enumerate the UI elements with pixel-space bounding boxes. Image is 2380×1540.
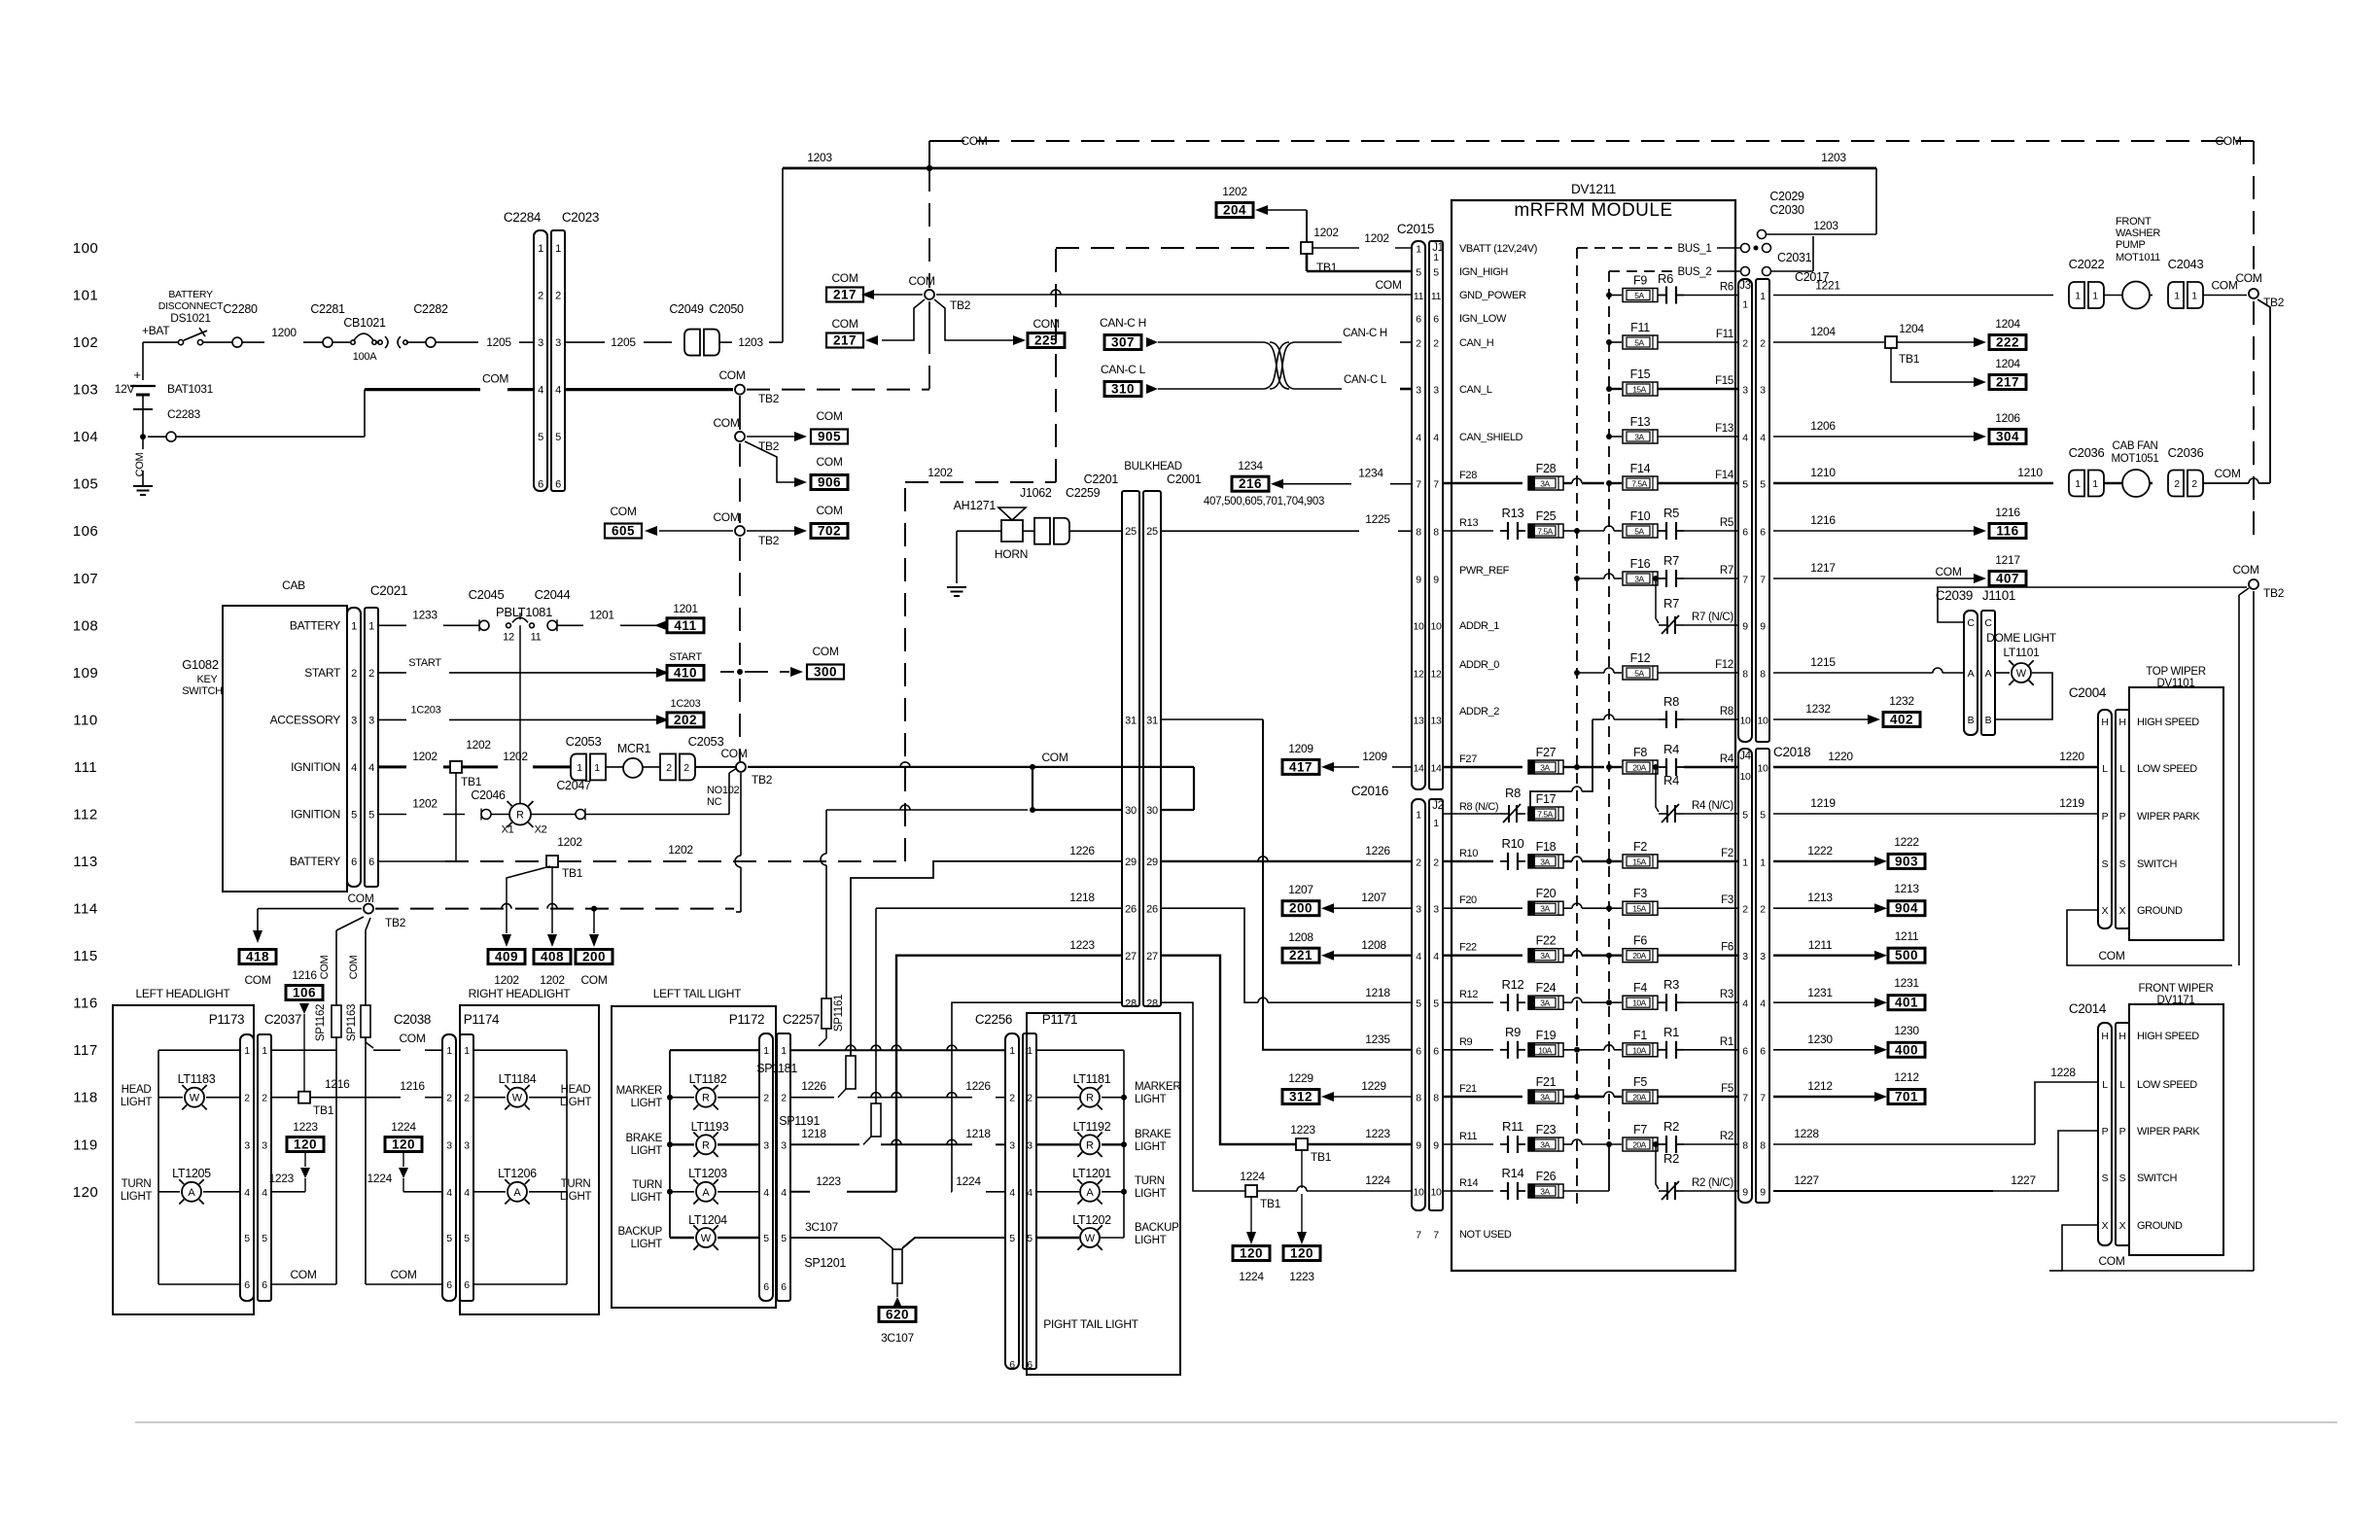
wire front wiper COM [2049,1225,2254,1271]
node J1 pin 3 [1416,385,1439,397]
node row 104 label [73,429,99,445]
svg-text:LIGHT: LIGHT [1135,1141,1167,1153]
wire COM to bulkhead30 [1030,767,1122,813]
svg-text:1211: 1211 [1808,938,1833,952]
node C2021 pin 5 [351,810,374,822]
wire TB1 to 408 [551,866,553,933]
svg-text:TB1: TB1 [1899,352,1920,366]
svg-text:START: START [408,657,441,669]
svg-text:8: 8 [1760,1140,1766,1152]
svg-text:312: 312 [1289,1090,1312,1104]
svg-text:27: 27 [1125,951,1137,962]
wire COM dashed top [929,134,2254,168]
connector J1 [1429,241,1444,789]
svg-text:6: 6 [781,1281,787,1293]
svg-text:X2: X2 [535,824,547,836]
svg-text:26: 26 [1146,904,1158,916]
wire label 1224 120 [385,1120,422,1152]
svg-text:1202: 1202 [927,466,953,479]
wire label 1213 904 [1888,882,1925,916]
svg-text:1210: 1210 [2017,466,2043,479]
svg-text:1224: 1224 [1365,1173,1390,1187]
node row 111 label [74,759,97,776]
node TB1 vbatt [1301,226,1339,274]
svg-text:3A: 3A [1540,951,1550,961]
svg-text:COM: COM [348,955,360,979]
svg-text:LIGHT: LIGHT [1135,1235,1167,1246]
svg-text:F16: F16 [1630,557,1651,571]
node J4 pin 9 [1742,1187,1766,1199]
svg-text:F3: F3 [1721,894,1733,906]
wire 1202 dash to TB1 [1056,247,1301,249]
node J3 pin 4 [1742,433,1766,444]
svg-text:5: 5 [1416,267,1421,279]
svg-text:4: 4 [464,1187,470,1199]
svg-text:R6: R6 [1658,271,1673,286]
svg-text:HEAD: HEAD [122,1084,152,1096]
wire right tail pin4 [951,1002,1122,1192]
node J2 pin 7 [1416,1230,1439,1242]
svg-text:TURN: TURN [561,1178,591,1190]
svg-text:204: 204 [1223,203,1246,218]
svg-text:COM: COM [610,505,636,518]
svg-text:R: R [702,1139,710,1151]
node TB1 1204 [1885,322,1924,366]
connector C2280 [202,302,264,347]
svg-text:1234: 1234 [1358,467,1383,480]
fuse F12 row [1459,651,1738,680]
svg-text:5: 5 [464,1233,470,1244]
wire bus2 dashed [1608,271,1610,1191]
svg-text:S: S [2102,1172,2109,1184]
node J2 pin 9 [1416,1140,1439,1152]
footer rule [135,1421,2337,1423]
svg-text:CAN-C L: CAN-C L [1344,374,1387,386]
connector P1172 [729,1012,773,1301]
svg-text:1205: 1205 [486,335,511,349]
wire label 1201 411 [667,602,704,633]
node C2004 pin S [2102,858,2178,870]
svg-text:WASHER: WASHER [2116,227,2160,239]
svg-text:P: P [2119,811,2126,822]
svg-text:TB2: TB2 [752,773,773,787]
svg-text:1218: 1218 [965,1127,991,1140]
node NO102 NC [707,785,740,808]
svg-text:5: 5 [368,810,374,822]
wire 1205 [486,335,534,349]
svg-text:106: 106 [73,523,99,540]
wire 1223 tail [790,938,1122,1192]
svg-text:9: 9 [1416,575,1421,586]
svg-text:4: 4 [1742,998,1748,1010]
node row 113 label [73,854,97,870]
wire label 1209 417 [1282,742,1319,774]
svg-text:C2046: C2046 [471,788,506,802]
svg-text:A: A [188,1187,195,1199]
svg-text:7.5A: 7.5A [1631,479,1647,489]
svg-text:F15: F15 [1630,367,1651,381]
wire 1226 tail [790,844,1122,1098]
svg-text:3: 3 [1433,904,1439,916]
svg-text:7: 7 [1760,575,1766,586]
svg-text:5: 5 [1416,998,1421,1010]
wire 1206 [1773,419,1974,437]
svg-text:GROUND: GROUND [2137,905,2183,917]
node J1 pin 11 [1414,291,1442,302]
svg-text:120: 120 [392,1137,415,1152]
svg-text:TB2: TB2 [950,298,971,312]
wire 1202 dashed [445,860,541,862]
wire label 418 [239,950,276,988]
svg-text:LT1101: LT1101 [2003,646,2040,659]
node arrow 307 [1146,337,1158,347]
svg-text:1209: 1209 [1288,742,1313,755]
connector C2283 [167,407,200,421]
svg-text:F22: F22 [1536,934,1557,948]
svg-text:11: 11 [531,631,542,643]
node C2014 pin L [2102,1079,2197,1091]
svg-text:TURN: TURN [632,1179,662,1191]
svg-text:R2: R2 [1663,1151,1679,1166]
fuse F27 / F8 row [1443,742,1738,776]
wire TB2 903 ladder [739,396,741,430]
svg-text:217: 217 [1996,375,2019,390]
svg-text:F12: F12 [1630,651,1651,665]
svg-text:CAN_SHIELD: CAN_SHIELD [1459,432,1523,443]
svg-text:3C107: 3C107 [805,1220,838,1234]
wire COM sp1162 [319,917,364,1284]
fuse F18 / F2 row [1443,836,1738,870]
svg-text:5: 5 [1433,998,1439,1010]
svg-text:1: 1 [446,1045,452,1057]
svg-text:C2053: C2053 [566,734,602,749]
svg-text:A: A [1985,668,1992,680]
node C2284 pin 6 [538,479,543,491]
wire SP1161 riser [821,805,1028,998]
node J1 pin 10 [1413,621,1442,633]
svg-text:J2: J2 [1432,800,1444,812]
node arrow 106 [299,1003,309,1014]
svg-text:R: R [1086,1139,1094,1151]
svg-text:PUMP: PUMP [2116,239,2146,251]
svg-text:B: B [1985,715,1992,726]
svg-text:222: 222 [1996,335,2019,350]
svg-text:2: 2 [1760,338,1766,350]
svg-text:BACKUP: BACKUP [618,1226,663,1238]
svg-text:F21: F21 [1459,1083,1477,1095]
wire COM to 217 box [873,294,923,296]
svg-text:2: 2 [368,668,374,680]
node P1171 pin 4 [1009,1187,1032,1199]
svg-text:5: 5 [446,1233,452,1244]
svg-text:COM: COM [2098,1254,2124,1268]
wire 1218 j2 [1161,908,1412,1002]
svg-text:LEFT TAIL LIGHT: LEFT TAIL LIGHT [653,987,742,1000]
wire label 1C203 202 [667,698,704,727]
svg-text:27: 27 [1146,951,1158,962]
svg-text:4: 4 [1009,1187,1015,1199]
node cab label BATTERY 113 [290,855,340,868]
svg-text:W: W [701,1233,712,1244]
svg-text:6: 6 [1009,1359,1015,1371]
svg-text:C2023: C2023 [562,210,599,225]
svg-text:5: 5 [781,1233,787,1244]
svg-text:1220: 1220 [1828,750,1853,763]
node arrow 310 [1146,384,1158,394]
node row 119 label [73,1137,97,1153]
connector C2049/C2050 pair [684,330,719,356]
svg-text:START: START [669,651,702,663]
wire label 1206 304 [1989,411,2026,444]
svg-text:6: 6 [1416,314,1421,326]
svg-text:120: 120 [1290,1246,1313,1261]
svg-text:500: 500 [1895,948,1918,962]
svg-text:R: R [702,1093,710,1104]
node arrow 217c [1974,377,1986,387]
svg-text:LOW SPEED: LOW SPEED [2137,763,2197,775]
node cab label BATTERY 108 [290,618,340,632]
node P1173 pin 6 [244,1279,267,1291]
svg-text:SP1191: SP1191 [779,1114,820,1128]
node J3 pin 6 [1742,527,1766,539]
connector C2045 [469,587,505,631]
svg-text:G1082: G1082 [182,657,219,672]
svg-text:3C107: 3C107 [881,1331,914,1345]
svg-text:1228: 1228 [2050,1066,2076,1079]
svg-text:R8 (N/C): R8 (N/C) [1459,801,1498,813]
svg-text:1226: 1226 [1069,844,1095,857]
node J3 pin 5 [1742,479,1766,491]
svg-text:10A: 10A [1632,998,1646,1008]
svg-text:1: 1 [2075,478,2081,490]
svg-text:3: 3 [781,1139,787,1151]
wire 1229 [1334,1079,1412,1097]
switch PBLT1081 [496,605,552,643]
node C2021 pin 6 [351,857,374,868]
wire 1204 [1773,325,1884,342]
svg-text:1223: 1223 [1365,1127,1390,1140]
svg-text:WIPER PARK: WIPER PARK [2137,1126,2200,1137]
wire 1208 [1334,938,1412,956]
svg-text:2: 2 [763,1093,769,1104]
node J3 pin 2 [1742,338,1766,350]
svg-text:112: 112 [73,807,97,823]
wire 1225 [1161,512,1412,531]
svg-text:1210: 1210 [1810,466,1836,479]
node J3 pin 3 [1742,385,1766,397]
svg-text:3: 3 [763,1139,769,1151]
svg-text:TB1: TB1 [562,866,583,880]
wire label 620 [879,1308,916,1346]
svg-text:3: 3 [262,1139,267,1151]
svg-text:R2 (N/C): R2 (N/C) [1692,1177,1733,1189]
svg-text:6: 6 [368,857,374,868]
svg-text:10A: 10A [1538,1045,1552,1055]
wire left tail bus [670,1050,759,1238]
wire BUS_2 [1609,266,1741,278]
connector C2021 strip b [365,583,407,887]
node TB2 row104 [713,416,779,453]
node J4 pin 10 [1739,763,1768,784]
svg-text:R4 (N/C): R4 (N/C) [1692,800,1733,812]
svg-text:3A: 3A [1540,1187,1550,1197]
wire COM loop [1161,767,1194,810]
svg-text:1201: 1201 [673,602,698,615]
svg-text:1208: 1208 [1288,930,1313,944]
node TB2 headlight [347,892,405,929]
svg-text:20A: 20A [1632,951,1646,961]
svg-text:J3: J3 [1739,280,1751,292]
wire to 905 [747,436,795,437]
svg-text:1231: 1231 [1807,986,1833,999]
svg-text:7: 7 [1742,1093,1748,1104]
svg-text:F22: F22 [1459,942,1477,954]
wire 1224 stub [367,1172,443,1192]
node bulkhead pin 28 [1125,998,1158,1010]
svg-text:1231: 1231 [1894,976,1919,990]
svg-text:HIGH SPEED: HIGH SPEED [2137,1031,2199,1042]
svg-text:X1: X1 [502,824,514,836]
svg-text:10: 10 [1757,763,1768,775]
svg-text:COM: COM [482,372,508,386]
node J1 pin 13 [1413,716,1442,727]
svg-text:1226: 1226 [801,1079,826,1093]
connector C2047 [531,779,591,821]
svg-text:R1: R1 [1720,1036,1733,1048]
svg-text:115: 115 [73,948,97,964]
connector C2046 [471,788,506,821]
node J2 pin 5 [1416,998,1439,1010]
svg-text:5: 5 [538,432,543,443]
lamp LT1205 turn light [121,1167,240,1205]
svg-text:1: 1 [1760,291,1766,302]
svg-text:W: W [2016,668,2027,680]
svg-text:3: 3 [1760,951,1766,962]
svg-text:C2029: C2029 [1769,190,1804,203]
svg-text:1226: 1226 [1365,844,1390,857]
svg-text:P: P [2102,1126,2109,1137]
svg-text:407,500,605,701,704,903: 407,500,605,701,704,903 [1204,496,1324,507]
svg-text:4: 4 [1742,433,1748,444]
node row 100 label [73,240,99,257]
node J1 pin 7 [1416,479,1439,491]
fuse F16 / R7 row [1459,553,1738,587]
node P1171 pin 6 [1009,1359,1032,1371]
svg-text:1: 1 [2092,291,2098,302]
svg-text:TB2: TB2 [2263,296,2285,309]
node arrow 225 [1013,335,1026,345]
splice SP1201 [804,1249,902,1283]
wire label 1207 200 [1282,883,1319,916]
svg-text:2: 2 [2191,478,2197,490]
svg-text:217: 217 [833,333,857,348]
svg-text:H: H [2101,717,2108,728]
lamp LT1201 turn [1036,1167,1167,1205]
svg-text:8: 8 [1416,527,1421,539]
svg-text:R1: R1 [1663,1025,1679,1039]
svg-text:1217: 1217 [1810,561,1836,575]
svg-text:1: 1 [577,762,582,774]
wire CAN twist [1263,342,1295,389]
svg-text:4: 4 [1416,951,1421,962]
svg-text:2: 2 [1416,857,1421,868]
node label GND_POWER [1459,290,1526,301]
svg-text:4: 4 [351,762,357,774]
svg-text:9: 9 [1760,621,1766,633]
node J1101 pin A [1968,668,1992,680]
wire TB2 to cabfan [2257,299,2270,483]
svg-text:DS1021: DS1021 [170,311,211,325]
node bulkhead pin 27 [1125,951,1158,962]
svg-text:3A: 3A [1540,1093,1550,1102]
svg-text:905: 905 [818,430,841,444]
svg-text:R9: R9 [1505,1025,1521,1039]
node arrow 408 [547,934,557,947]
connector C2014 [2069,1001,2129,1245]
svg-text:F15: F15 [1715,375,1733,387]
svg-text:31: 31 [1125,715,1137,726]
node TB1 ign [450,738,491,788]
node row 116 label [73,996,97,1012]
svg-text:1: 1 [1416,810,1421,822]
svg-text:SWITCH: SWITCH [182,685,223,697]
wire 1216r [1773,513,1974,531]
wire 1224 route [1161,1002,1245,1191]
svg-text:10A: 10A [1632,1045,1646,1055]
svg-text:R10: R10 [1502,836,1524,851]
svg-text:GND_POWER: GND_POWER [1459,290,1526,301]
svg-text:1: 1 [351,620,357,632]
node C2021 pin 4 [351,762,374,774]
block RIGHT TAIL LIGHT [1027,1013,1180,1375]
wire CAN-C L [1158,388,1263,390]
wire TB1 to 409 [507,866,550,933]
fuse F17 row [1443,786,1563,822]
svg-text:3: 3 [555,337,561,349]
svg-text:LIGHT: LIGHT [1135,1188,1167,1200]
lamp LT1203 turn [631,1167,759,1205]
svg-text:10: 10 [1739,716,1751,727]
svg-text:1229: 1229 [1288,1071,1313,1085]
svg-text:COM: COM [1935,565,1961,578]
connector C2256 [975,1012,1019,1369]
svg-text:1202: 1202 [466,738,491,752]
wire to 605 [659,530,733,532]
connector C2259 [1034,486,1101,544]
wire TB2 leg 217b [882,299,925,340]
wire C2038 pin1 COM [366,1032,442,1050]
svg-text:L: L [2119,1079,2125,1091]
svg-text:3: 3 [351,715,357,726]
svg-text:408: 408 [541,950,564,964]
svg-text:906: 906 [818,475,841,490]
wire 1207 [1334,891,1412,908]
svg-text:2: 2 [1742,338,1748,350]
wire right headlight bus [473,1050,567,1284]
wire label COM 217 b [826,317,863,348]
svg-text:402: 402 [1890,713,1913,727]
node row 102 label [73,334,99,351]
wire COM thick from C2023 [565,388,733,391]
svg-text:F20: F20 [1459,894,1477,906]
node arrow 200 [589,934,599,947]
svg-text:200: 200 [1289,901,1312,916]
svg-text:MCR1: MCR1 [617,742,651,755]
svg-text:30: 30 [1146,805,1158,817]
svg-text:S: S [2102,858,2109,870]
node J4 pin 6 [1742,1045,1766,1057]
svg-text:1: 1 [594,762,600,774]
